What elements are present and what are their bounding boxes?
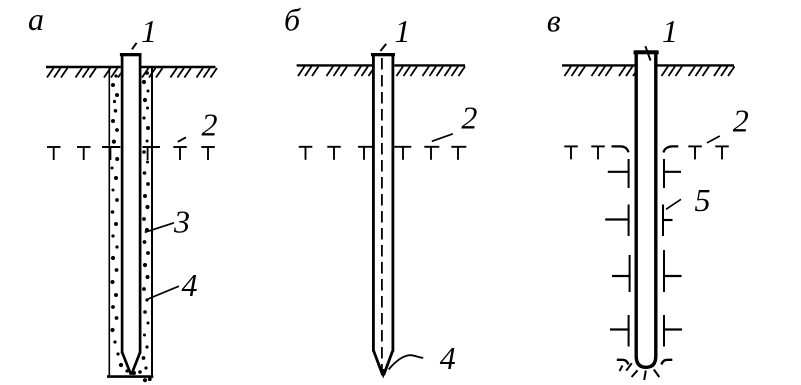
leader to 1	[132, 43, 137, 50]
pile white body b	[372, 53, 394, 376]
ground line b	[297, 64, 465, 66]
pile body v (white fill, rounded bottom)	[636, 52, 656, 367]
bottom right hook	[662, 360, 673, 365]
pile taper right	[131, 353, 140, 375]
leader to 2 b	[432, 134, 453, 142]
svg-text:3: 3	[173, 204, 190, 240]
pile cap	[120, 53, 142, 56]
svg-text:1: 1	[395, 13, 411, 49]
leader to 1 v	[645, 46, 650, 60]
pile cap b	[371, 53, 395, 56]
frozen tick verticals right	[663, 159, 664, 347]
borehole right wall	[151, 67, 153, 377]
svg-text:5: 5	[695, 182, 711, 218]
permafrost T-line b	[299, 147, 467, 160]
svg-text:1: 1	[141, 13, 157, 49]
pile left wall b	[372, 53, 375, 352]
frozen tick bars left	[605, 172, 630, 330]
leader to 3	[145, 223, 174, 233]
frozen tick verticals left	[629, 159, 630, 347]
leader to 4	[148, 286, 179, 299]
pile taper left	[122, 353, 131, 375]
leader to 2	[178, 137, 186, 142]
pile right wall b	[391, 53, 394, 352]
svg-text:в: в	[547, 2, 561, 38]
pile right wall	[139, 53, 142, 354]
tip rays	[620, 363, 660, 380]
leader to 2 v	[707, 136, 720, 143]
ground line v	[562, 64, 734, 66]
leader to 1 b	[380, 44, 386, 51]
pile tip b	[380, 369, 387, 379]
right thaw hook	[663, 146, 678, 152]
pile left wall	[121, 53, 124, 354]
svg-text:2: 2	[202, 107, 218, 143]
svg-text:1: 1	[662, 13, 678, 49]
ground hatch v	[565, 66, 735, 76]
svg-text:б: б	[284, 2, 301, 38]
ground hatch a	[47, 68, 217, 78]
slurry dots right column	[138, 71, 152, 382]
svg-text:2: 2	[461, 100, 477, 136]
permafrost T-line a	[47, 147, 215, 160]
svg-text:4: 4	[440, 340, 456, 376]
svg-text:а: а	[28, 1, 44, 37]
pile taper left b	[374, 351, 383, 376]
ground line a	[46, 66, 216, 68]
permafrost T-line v	[564, 146, 729, 159]
svg-text:4: 4	[182, 267, 198, 303]
pile cap v	[634, 51, 659, 55]
ground hatch b	[298, 66, 465, 76]
leader to 5	[666, 199, 681, 209]
bottom left hook	[617, 360, 629, 365]
frozen tick bars right	[663, 172, 682, 330]
slurry dots left column	[110, 74, 136, 375]
pile taper right b	[384, 351, 393, 376]
borehole left wall	[108, 67, 110, 377]
axis dashed line	[381, 58, 383, 371]
borehole bottom	[107, 375, 153, 378]
leader curve to 4 b	[389, 355, 424, 369]
svg-text:2: 2	[733, 103, 749, 139]
left thaw hook	[612, 146, 629, 152]
pile 1 white body	[121, 53, 142, 375]
